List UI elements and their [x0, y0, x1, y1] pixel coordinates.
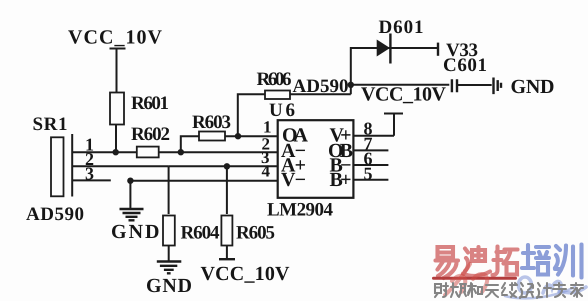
junction node R606/OA	[235, 133, 241, 139]
svg-text:R606: R606	[257, 69, 292, 90]
svg-text:U6: U6	[269, 100, 295, 121]
power VCC_10V bottom bar (R605)	[219, 258, 235, 260]
wire riser to diode	[351, 48, 438, 94]
svg-text:LM2904: LM2904	[267, 200, 334, 221]
wire A+ node down to R605	[226, 166, 228, 214]
power VCC_10V right symbol bar and stem	[384, 114, 403, 136]
svg-text:3: 3	[85, 164, 94, 184]
svg-text:SR1: SR1	[33, 114, 68, 135]
wire U6 pin5	[353, 179, 388, 181]
svg-text:AD590: AD590	[26, 204, 84, 225]
op-amp U6 box	[278, 120, 354, 198]
svg-text:VCC_10V: VCC_10V	[361, 84, 447, 106]
svg-text:C601: C601	[443, 55, 487, 76]
svg-text:D601: D601	[379, 17, 424, 38]
wire capacitor to GND	[458, 84, 492, 86]
wire V- node down to GND1	[129, 181, 131, 208]
svg-text:GND: GND	[511, 76, 555, 98]
svg-text:VCC_10V: VCC_10V	[68, 27, 163, 49]
component SR1 body	[51, 137, 64, 196]
wire SR1 pin2 to A+ corner	[72, 165, 168, 167]
wire node A- up to R603 line	[181, 136, 278, 152]
watermark italic blue script overlay	[505, 277, 586, 298]
wire U6 pin7	[353, 149, 388, 151]
connector SR1 vertical line	[71, 134, 73, 197]
power VCC_10V top-left symbol	[110, 49, 126, 93]
wire node to capacitor C601	[351, 84, 450, 86]
wire R604 to GND2	[168, 246, 170, 262]
wire U6 pin6	[353, 164, 388, 166]
watermark italic red script overlay	[445, 264, 487, 295]
resistor R606	[265, 91, 290, 100]
svg-text:V−: V−	[281, 169, 306, 191]
svg-text:4: 4	[262, 162, 271, 181]
diode D601 triangle	[377, 40, 390, 57]
svg-text:VCC_10V: VCC_10V	[201, 263, 291, 285]
ground GND2 earth symbol	[157, 262, 182, 274]
svg-text:B+: B+	[330, 169, 352, 191]
resistor R602	[137, 147, 159, 158]
junction node R603/A-	[178, 149, 184, 155]
svg-text:R601: R601	[131, 93, 169, 114]
wire SR1 pin3 stub	[72, 179, 111, 181]
wire V- net to U6 pin4	[130, 180, 277, 182]
watermark slogan 射频和天线设计专家	[435, 283, 583, 298]
junction node A+/R605	[224, 163, 230, 169]
svg-text:R604: R604	[181, 223, 221, 244]
junction node C601 branch	[348, 82, 354, 88]
capacitor C601 plates	[452, 79, 457, 92]
wire R605 to VCC bar	[226, 246, 228, 259]
resistor R605	[221, 216, 232, 246]
svg-text:R605: R605	[236, 223, 275, 244]
ground GND1 earth symbol	[120, 209, 144, 220]
wire R601 bottom to node	[115, 125, 117, 153]
ground GND right pcb symbol	[494, 78, 502, 95]
svg-text:GND: GND	[146, 275, 192, 297]
svg-text:5: 5	[364, 163, 373, 183]
junction node R601/A-	[113, 149, 119, 155]
resistor R604	[163, 216, 175, 246]
resistor R603	[199, 132, 225, 141]
wire R603 line up to R606 line	[238, 94, 351, 136]
svg-text:AD590: AD590	[293, 76, 349, 97]
terminal V33 bar	[437, 43, 439, 56]
wire U6 pin8 to VCC stem	[353, 135, 394, 137]
wire A+ node down to R604	[168, 166, 170, 214]
watermark logo 易迪拓培训 bottom-right	[434, 245, 587, 299]
svg-text:R602: R602	[131, 124, 170, 145]
diode D601 cathode bar	[389, 34, 391, 64]
junction node V-/GND	[127, 178, 133, 184]
resistor R601	[110, 93, 124, 125]
svg-text:GND: GND	[111, 221, 160, 243]
wire A+ net to U6 pin3	[169, 165, 278, 167]
svg-text:R603: R603	[192, 112, 231, 133]
wire A- net horizontal (SR1 pin1 to U6 pin2)	[72, 151, 278, 153]
watermark red underline bar	[434, 277, 516, 280]
